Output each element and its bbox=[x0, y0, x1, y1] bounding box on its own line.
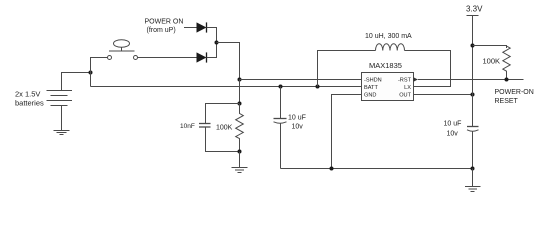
capacitor C3 10uF output bbox=[467, 127, 479, 132]
wire node A down to battery bus bbox=[90, 73, 92, 87]
wire inductor to LX pin bbox=[405, 51, 451, 87]
node rail right junction bbox=[471, 167, 475, 171]
svg-text:100K: 100K bbox=[483, 57, 501, 66]
wire C3 bottom to rail bbox=[472, 131, 474, 169]
svg-text:3.3V: 3.3V bbox=[466, 4, 483, 13]
diode D1 bbox=[197, 22, 207, 32]
label POWER-ON RESET bbox=[495, 89, 534, 105]
wire D2 cathode to node B bbox=[207, 43, 217, 58]
label POWER ON (from uP) bbox=[145, 19, 184, 35]
node SHDN junction bbox=[238, 78, 242, 82]
node RC bottom junction bbox=[238, 150, 242, 154]
wire RC bottom to ground bbox=[239, 152, 241, 168]
wire label to diode D1 anode bbox=[184, 27, 197, 29]
svg-text:10v: 10v bbox=[447, 131, 459, 138]
node inductor riser bbox=[316, 85, 320, 89]
svg-text:BATT: BATT bbox=[364, 85, 378, 91]
svg-text:POWER-ON: POWER-ON bbox=[495, 89, 534, 96]
battery B1 2x1.5V bbox=[47, 91, 73, 106]
wire D1 cathode to node B bbox=[207, 28, 217, 43]
wire C1 bottom bbox=[206, 128, 240, 152]
capacitor C2 10uF input bbox=[274, 119, 287, 124]
pin labels U1 bbox=[364, 78, 412, 99]
wire node B to SHDN drop bbox=[217, 43, 240, 80]
ground (RC network) bbox=[232, 168, 248, 173]
wire node A up to switch bbox=[91, 58, 108, 73]
wire rail to ground bbox=[472, 169, 474, 187]
pin RST arrow bbox=[414, 77, 418, 81]
node battery bus C2 tap bbox=[279, 85, 283, 89]
node RC top junction bbox=[238, 102, 242, 106]
svg-text:10v: 10v bbox=[292, 123, 304, 130]
wire tap to R2 bbox=[473, 46, 507, 49]
svg-text:(from uP): (from uP) bbox=[147, 27, 176, 34]
wire RST to reset output bbox=[418, 79, 524, 81]
svg-text:-RST: -RST bbox=[398, 78, 412, 84]
capacitor C1 10nF bbox=[199, 124, 211, 128]
label C3 value bbox=[444, 121, 462, 138]
node B junction bbox=[215, 41, 219, 45]
svg-text:POWER ON: POWER ON bbox=[145, 19, 184, 26]
wire SHDN drop down to RC network bbox=[239, 80, 241, 104]
node A junction bbox=[89, 71, 93, 75]
node OUT junction bbox=[471, 93, 475, 97]
wire switch to diode D2 anode bbox=[138, 57, 197, 59]
resistor R1 100K bbox=[236, 104, 244, 152]
3.3V rail tick bbox=[467, 15, 479, 17]
IC U1 MAX1835 step-up converter box bbox=[362, 73, 414, 101]
svg-text:GND: GND bbox=[364, 93, 376, 99]
node R2 RST junction bbox=[505, 78, 509, 82]
ground (output) bbox=[465, 187, 481, 192]
wire battery top to node A bbox=[62, 73, 91, 91]
wire bus down to C2 bbox=[280, 87, 282, 119]
svg-text:OUT: OUT bbox=[399, 93, 411, 99]
wire SHDN line to pin bbox=[240, 79, 362, 81]
svg-text:10 uF: 10 uF bbox=[288, 114, 306, 121]
svg-text:10 uH, 300 mA: 10 uH, 300 mA bbox=[365, 33, 412, 40]
svg-text:MAX1835: MAX1835 bbox=[369, 61, 402, 70]
svg-text:batteries: batteries bbox=[15, 99, 44, 108]
svg-text:2x 1.5V: 2x 1.5V bbox=[15, 90, 40, 99]
wire 3.3V rail down bbox=[472, 16, 474, 127]
battery label bbox=[15, 90, 44, 108]
resistor R2 100K pullup bbox=[503, 46, 510, 80]
svg-text:10nF: 10nF bbox=[180, 123, 195, 130]
ground (battery) bbox=[54, 131, 70, 135]
svg-text:-SHDN: -SHDN bbox=[364, 78, 382, 84]
wire riser to inductor L1 bbox=[318, 51, 376, 87]
diode D2 bbox=[197, 52, 207, 62]
pushbutton switch S1 bbox=[108, 40, 138, 60]
wire C2 bottom to ground rail bbox=[280, 124, 282, 169]
svg-text:100K: 100K bbox=[216, 124, 233, 131]
svg-text:10 uF: 10 uF bbox=[444, 121, 462, 128]
ground rail bbox=[281, 168, 473, 170]
inductor L1 10uH bbox=[376, 44, 405, 51]
wire RC network top bbox=[206, 104, 240, 124]
node 3.3V pullup tap bbox=[471, 44, 475, 48]
svg-text:RESET: RESET bbox=[495, 98, 519, 105]
wire battery bottom to ground bbox=[61, 106, 63, 131]
label C2 value bbox=[288, 114, 306, 130]
wire OUT pin to 3.3V rail bbox=[414, 94, 473, 96]
wire battery bus to BATT pin bbox=[91, 86, 362, 88]
node GND rail junction bbox=[330, 167, 334, 171]
wire GND pin to ground rail bbox=[332, 95, 362, 169]
svg-text:LX: LX bbox=[404, 85, 411, 91]
